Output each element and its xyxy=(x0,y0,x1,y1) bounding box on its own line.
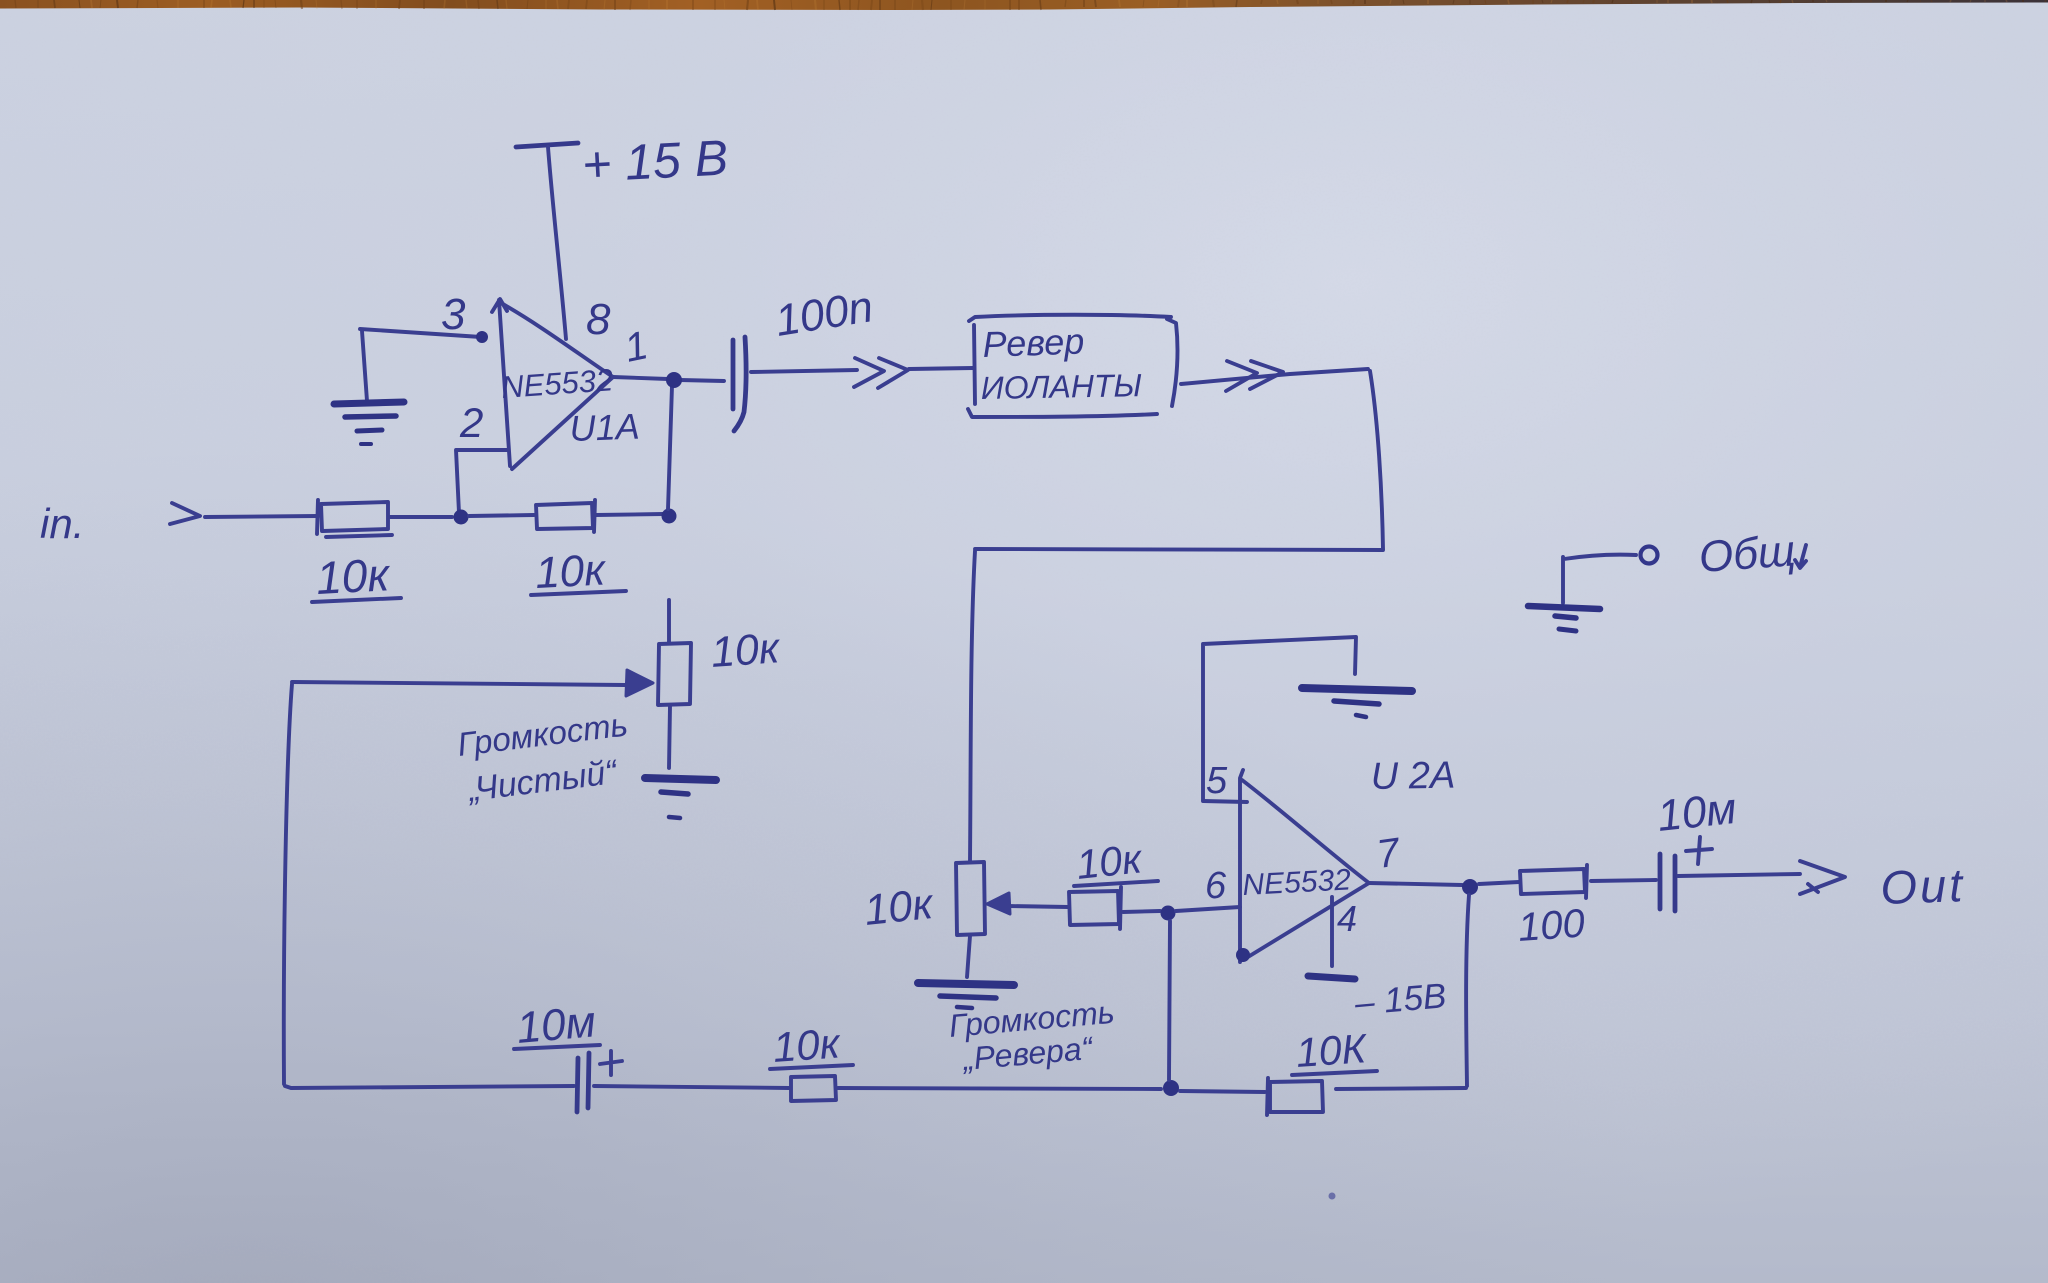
wire pin 2 feedback hook xyxy=(456,450,508,513)
reverb block label line2 xyxy=(980,367,1142,406)
wire pin3 to ground xyxy=(362,331,367,401)
ground G1 xyxy=(334,402,404,444)
wire R6 to node D xyxy=(838,1088,1161,1089)
ground G3 under P2 xyxy=(918,983,1014,1008)
label -15V xyxy=(1352,976,1448,1023)
capacitor C3 10u plates xyxy=(1660,854,1675,911)
wire node A to R2 xyxy=(469,515,534,516)
op-amp U1A designator xyxy=(569,406,640,449)
svg-text:6: 6 xyxy=(1205,865,1227,907)
wire input to R1 xyxy=(205,516,318,517)
wire reverb down right side xyxy=(1370,371,1383,549)
svg-text:5: 5 xyxy=(1206,760,1228,802)
label R4 10k xyxy=(1074,835,1158,888)
capacitor C2 10u plates xyxy=(577,1053,589,1112)
label R1 10k xyxy=(312,548,401,604)
wire feedback bottom to R3 xyxy=(1336,1088,1466,1089)
wire U2A pin5 ground loop xyxy=(1203,637,1356,800)
node E output dot xyxy=(1462,879,1478,895)
svg-text:3: 3 xyxy=(441,290,466,339)
wire R3 to node D xyxy=(1180,1091,1265,1092)
potentiometer P1 10k body xyxy=(658,643,691,705)
label C2 10M xyxy=(514,997,600,1053)
resistor R3 10K feedback xyxy=(1267,1078,1323,1115)
label R5 100 xyxy=(1517,901,1587,950)
wire P2 bottom lead xyxy=(967,936,970,977)
wire arrow to reverb block xyxy=(909,368,973,369)
label P1 10k xyxy=(709,624,782,677)
op-amp U1A part label NE5532 xyxy=(500,362,614,405)
ground G2 above U2A xyxy=(1302,688,1412,717)
label C3 10M xyxy=(1655,784,1739,841)
svg-text:– 15В: – 15В xyxy=(1352,976,1448,1023)
plus sign C2 xyxy=(600,1051,622,1075)
wire pin 5 xyxy=(1203,801,1247,802)
label P2 10k xyxy=(862,880,936,935)
arrowhead P2 wiper xyxy=(987,893,1010,914)
reverb block label line1 xyxy=(982,320,1085,365)
node B junction dot xyxy=(662,509,677,524)
reverb block box xyxy=(968,315,1177,417)
capacitor C1 100n xyxy=(733,337,746,431)
wire pin 4 down xyxy=(1330,897,1334,966)
wire U2A output pin 7 xyxy=(1369,883,1462,885)
svg-text:NE5532: NE5532 xyxy=(1242,863,1352,902)
plus sign C3 xyxy=(1686,837,1712,864)
pin 3 label xyxy=(441,290,466,339)
wire C2 to R6 xyxy=(594,1086,789,1088)
wire R1 to node A xyxy=(390,515,452,519)
ground G5 common xyxy=(1528,606,1600,631)
wire node B down to P1 top xyxy=(667,600,671,642)
wire P1 wiper feedback left loop top xyxy=(292,682,625,685)
svg-text:10К: 10К xyxy=(1294,1025,1370,1076)
wire horizontal reverb return xyxy=(975,549,1383,550)
wire node B up to output node xyxy=(668,386,672,509)
svg-text:Ревер: Ревер xyxy=(982,320,1085,365)
label Out xyxy=(1879,858,1966,914)
wire +15V to U1A pin 8 xyxy=(548,147,566,339)
pin 7 label xyxy=(1374,830,1404,877)
wire reverb output xyxy=(1181,369,1368,384)
svg-text:Out: Out xyxy=(1879,858,1966,914)
wire node E to R5 xyxy=(1479,882,1519,884)
node A junction dot xyxy=(454,510,469,525)
label common xyxy=(1697,526,1806,582)
node pin3 dot xyxy=(476,331,488,343)
node common circle xyxy=(1563,547,1658,604)
wire P1 bottom lead xyxy=(669,706,670,768)
wire R4 to node C xyxy=(1123,911,1160,912)
svg-text:2: 2 xyxy=(459,399,483,446)
wire node C to U2A pin 6 xyxy=(1176,907,1240,911)
arrow chevrons to reverb xyxy=(854,358,908,388)
wire left loop vertical xyxy=(284,684,292,1084)
arrowhead out xyxy=(1800,861,1845,894)
svg-text:ИОЛАНТЫ: ИОЛАНТЫ xyxy=(980,367,1142,406)
pin 6 label xyxy=(1205,865,1227,907)
ink dot stray mark xyxy=(1329,1193,1336,1200)
svg-text:8: 8 xyxy=(586,295,611,344)
svg-text:+ 15 В: + 15 В xyxy=(581,129,730,193)
svg-text:U1A: U1A xyxy=(569,406,640,449)
node C junction dot xyxy=(1161,906,1176,921)
label +15V xyxy=(581,129,730,193)
arrowhead P1 wiper xyxy=(626,670,653,696)
label Чистый xyxy=(464,753,620,809)
svg-text:10к: 10к xyxy=(709,624,782,677)
label in. xyxy=(40,500,84,547)
label R3 10K xyxy=(1292,1025,1377,1076)
svg-text:10к: 10к xyxy=(315,548,393,604)
resistor R1 10k xyxy=(317,500,392,537)
wire U1A output pin 1 xyxy=(613,377,724,381)
wire down to pot P2 xyxy=(970,551,975,861)
svg-text:10к: 10к xyxy=(771,1019,843,1071)
wire input pin 3 xyxy=(360,329,481,337)
resistor R5 100 xyxy=(1520,865,1587,898)
svg-text:in.: in. xyxy=(40,500,84,547)
resistor R4 10k xyxy=(1069,887,1121,929)
wire C3 to out arrow xyxy=(1678,874,1800,876)
pin 5 label xyxy=(1206,760,1228,802)
wire node C down to node D xyxy=(1169,921,1170,1080)
op-amp U2A triangle xyxy=(1236,770,1369,962)
potentiometer P2 10k body xyxy=(956,862,985,935)
label Ревера xyxy=(959,1030,1095,1078)
op-amp U1A triangle xyxy=(492,299,613,469)
label Громкость (чистый) xyxy=(455,705,629,763)
wire R2 to node B xyxy=(596,514,663,515)
op-amp U2A designator xyxy=(1370,755,1455,798)
pin 8 label xyxy=(586,295,611,344)
input arrow chevron xyxy=(170,503,200,524)
pin 4 label xyxy=(1337,898,1357,939)
node D junction dot xyxy=(1163,1080,1179,1096)
pin 1 label xyxy=(621,323,652,371)
svg-text:Общ: Общ xyxy=(1697,526,1797,582)
op-amp U2A part label NE5532 xyxy=(1242,863,1352,902)
svg-text:10к: 10к xyxy=(1074,835,1145,888)
svg-text:10к: 10к xyxy=(862,880,936,935)
wire bottom rail left segment xyxy=(285,1086,574,1088)
wire P2 wiper to R4 xyxy=(1008,906,1068,907)
pin 2 label xyxy=(459,399,483,446)
svg-text:U 2A: U 2A xyxy=(1370,755,1455,798)
resistor R6 10k bottom xyxy=(791,1076,836,1101)
bar -15V xyxy=(1308,976,1355,979)
ground G4 under P1 xyxy=(645,778,716,818)
wire R5 to C3 xyxy=(1591,880,1656,881)
wire node E down feedback xyxy=(1466,895,1469,1086)
label Громкость (ревера) xyxy=(947,994,1115,1044)
svg-text:10м: 10м xyxy=(1655,784,1739,841)
node output U1A dot xyxy=(666,372,682,388)
resistor R2 10k xyxy=(536,500,595,532)
power +15V symbol bar xyxy=(516,143,578,147)
label R2 10k xyxy=(531,545,626,598)
label R6 10k xyxy=(770,1019,853,1071)
svg-text:100: 100 xyxy=(1517,901,1587,950)
arrow chevrons reverb output xyxy=(1226,361,1283,391)
svg-text:10к: 10к xyxy=(534,545,608,598)
label C1 100n xyxy=(772,282,876,346)
wire C1 to arrow xyxy=(751,370,857,372)
svg-text:4: 4 xyxy=(1337,898,1357,939)
